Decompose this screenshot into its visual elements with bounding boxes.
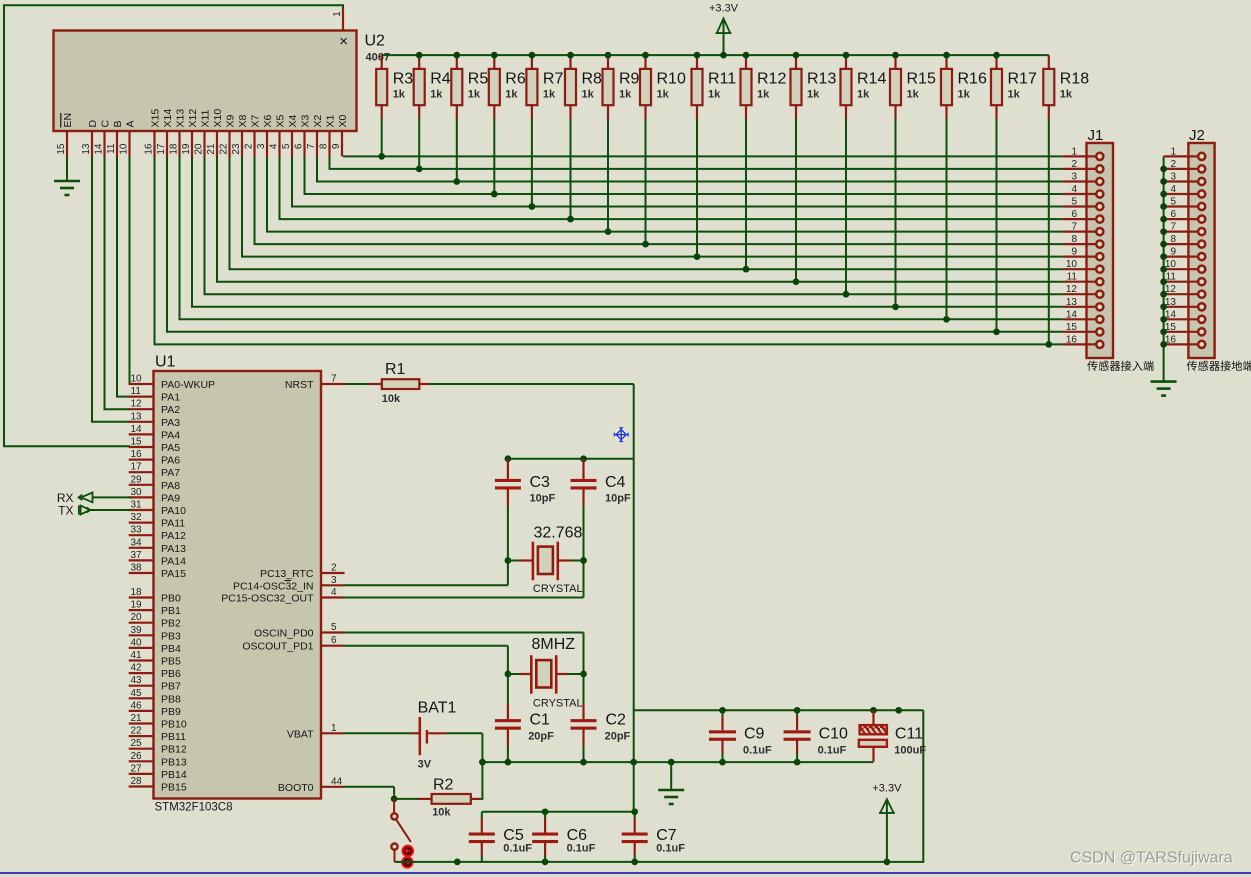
svg-text:R18: R18 xyxy=(1060,71,1089,88)
svg-text:0.1uF: 0.1uF xyxy=(503,843,532,855)
svg-text:R13: R13 xyxy=(807,71,836,88)
svg-text:10k: 10k xyxy=(382,393,401,405)
svg-text:PA7: PA7 xyxy=(161,467,180,479)
svg-text:PA15: PA15 xyxy=(161,568,186,580)
svg-text:1k: 1k xyxy=(757,89,770,101)
svg-text:41: 41 xyxy=(131,650,143,661)
svg-text:1: 1 xyxy=(1071,146,1077,157)
svg-text:29: 29 xyxy=(131,474,143,485)
svg-text:A: A xyxy=(124,120,136,127)
svg-text:PC15-OSC32_OUT: PC15-OSC32_OUT xyxy=(221,593,314,605)
svg-text:C4: C4 xyxy=(605,474,626,491)
svg-text:34: 34 xyxy=(131,537,143,548)
svg-text:1k: 1k xyxy=(582,89,595,101)
svg-text:33: 33 xyxy=(131,525,143,536)
svg-text:PA0-WKUP: PA0-WKUP xyxy=(161,379,215,391)
svg-text:20pF: 20pF xyxy=(528,731,554,743)
svg-text:PB2: PB2 xyxy=(161,618,181,630)
svg-text:100uF: 100uF xyxy=(894,745,926,757)
svg-text:X15: X15 xyxy=(149,109,161,128)
svg-text:10: 10 xyxy=(119,143,130,155)
svg-text:46: 46 xyxy=(131,700,143,711)
svg-text:PC14-OSC32_IN: PC14-OSC32_IN xyxy=(233,580,314,592)
svg-text:20pF: 20pF xyxy=(605,731,631,743)
svg-text:+3.3V: +3.3V xyxy=(872,783,902,795)
svg-text:J1: J1 xyxy=(1088,127,1104,144)
svg-text:PB3: PB3 xyxy=(161,630,181,642)
svg-text:43: 43 xyxy=(131,675,143,686)
svg-text:13: 13 xyxy=(81,143,92,155)
svg-text:BOOT0: BOOT0 xyxy=(278,782,314,794)
svg-text:37: 37 xyxy=(131,550,143,561)
svg-text:PA9: PA9 xyxy=(161,492,180,504)
svg-text:R7: R7 xyxy=(543,71,564,88)
svg-text:X2: X2 xyxy=(312,114,324,127)
svg-text:PB10: PB10 xyxy=(161,719,187,731)
svg-text:R8: R8 xyxy=(582,71,603,88)
svg-text:5: 5 xyxy=(281,143,292,149)
svg-text:X1: X1 xyxy=(324,114,336,127)
svg-text:TX: TX xyxy=(58,504,73,518)
svg-text:30: 30 xyxy=(131,487,143,498)
svg-text:10: 10 xyxy=(1066,259,1078,270)
svg-text:R15: R15 xyxy=(907,71,936,88)
svg-text:11: 11 xyxy=(1067,272,1078,283)
svg-text:9: 9 xyxy=(1071,247,1077,258)
svg-text:PA4: PA4 xyxy=(161,429,180,441)
svg-text:8: 8 xyxy=(319,143,330,149)
svg-text:9: 9 xyxy=(1170,247,1176,258)
svg-text:32.768: 32.768 xyxy=(534,525,583,542)
svg-text:1k: 1k xyxy=(857,89,870,101)
svg-text:21: 21 xyxy=(206,143,217,155)
svg-text:15: 15 xyxy=(1066,322,1078,333)
svg-text:X11: X11 xyxy=(199,109,211,127)
svg-text:CRYSTAL: CRYSTAL xyxy=(533,583,583,595)
svg-text:12: 12 xyxy=(1066,284,1078,295)
svg-text:B: B xyxy=(112,120,124,127)
svg-text:10pF: 10pF xyxy=(530,493,556,505)
svg-text:PA8: PA8 xyxy=(161,480,180,492)
svg-text:16: 16 xyxy=(144,143,155,155)
svg-text:1: 1 xyxy=(1170,146,1176,157)
svg-text:C9: C9 xyxy=(744,726,765,743)
svg-text:40: 40 xyxy=(131,637,143,648)
svg-text:R11: R11 xyxy=(708,71,736,88)
svg-text:7: 7 xyxy=(306,143,317,149)
svg-text:17: 17 xyxy=(156,143,167,155)
svg-text:18: 18 xyxy=(131,587,143,598)
svg-text:X7: X7 xyxy=(249,114,261,127)
svg-text:21: 21 xyxy=(131,713,143,724)
svg-text:20: 20 xyxy=(194,143,205,155)
svg-text:R16: R16 xyxy=(958,71,987,88)
svg-text:×: × xyxy=(339,33,348,50)
svg-text:5: 5 xyxy=(331,622,337,633)
svg-text:14: 14 xyxy=(1066,309,1078,320)
svg-text:3V: 3V xyxy=(418,759,432,771)
svg-text:0.1uF: 0.1uF xyxy=(743,745,772,757)
svg-text:1k: 1k xyxy=(505,89,518,101)
svg-text:5: 5 xyxy=(1071,197,1077,208)
svg-text:X9: X9 xyxy=(224,114,236,127)
svg-text:C: C xyxy=(99,120,111,128)
svg-text:PB4: PB4 xyxy=(161,643,181,655)
svg-text:3: 3 xyxy=(1170,172,1176,183)
svg-text:44: 44 xyxy=(331,776,343,787)
svg-text:7: 7 xyxy=(331,374,337,385)
svg-text:PA5: PA5 xyxy=(161,442,180,454)
svg-text:X12: X12 xyxy=(187,109,199,128)
svg-text:15: 15 xyxy=(131,437,143,448)
svg-text:X6: X6 xyxy=(262,114,274,127)
svg-text:J2: J2 xyxy=(1189,127,1205,144)
svg-text:+3.3V: +3.3V xyxy=(709,3,739,15)
svg-text:4: 4 xyxy=(331,587,337,598)
svg-text:PB14: PB14 xyxy=(161,769,187,781)
svg-text:1k: 1k xyxy=(907,89,920,101)
svg-text:PB0: PB0 xyxy=(161,593,181,605)
svg-text:PB15: PB15 xyxy=(161,782,187,794)
svg-text:17: 17 xyxy=(131,462,143,473)
svg-text:D: D xyxy=(87,120,99,128)
svg-text:OSCIN_PD0: OSCIN_PD0 xyxy=(254,628,314,640)
svg-text:PB9: PB9 xyxy=(161,706,181,718)
svg-text:11: 11 xyxy=(106,143,117,154)
svg-text:BAT1: BAT1 xyxy=(418,700,457,717)
svg-text:X4: X4 xyxy=(287,114,299,127)
svg-text:0.1uF: 0.1uF xyxy=(656,843,685,855)
svg-text:R10: R10 xyxy=(657,71,686,88)
svg-text:8: 8 xyxy=(1071,234,1077,245)
svg-text:1k: 1k xyxy=(1008,89,1021,101)
svg-text:12: 12 xyxy=(131,399,143,410)
svg-text:R3: R3 xyxy=(393,71,414,88)
svg-text:6: 6 xyxy=(1071,209,1077,220)
svg-text:2: 2 xyxy=(244,143,255,149)
svg-text:15: 15 xyxy=(56,143,67,155)
svg-text:1k: 1k xyxy=(393,89,406,101)
svg-text:26: 26 xyxy=(131,751,143,762)
svg-text:1k: 1k xyxy=(708,89,721,101)
svg-text:9: 9 xyxy=(331,143,342,149)
svg-text:16: 16 xyxy=(131,449,143,460)
svg-text:3: 3 xyxy=(331,575,337,586)
svg-text:OSCOUT_PD1: OSCOUT_PD1 xyxy=(242,641,313,653)
svg-text:U2: U2 xyxy=(365,33,386,50)
svg-text:14: 14 xyxy=(94,143,105,155)
svg-text:18: 18 xyxy=(169,143,180,155)
svg-text:X8: X8 xyxy=(237,114,249,127)
svg-text:C5: C5 xyxy=(503,827,524,844)
svg-text:X10: X10 xyxy=(212,109,224,128)
svg-text:R4: R4 xyxy=(430,71,451,88)
svg-text:32: 32 xyxy=(131,512,143,523)
svg-text:7: 7 xyxy=(1071,222,1077,233)
svg-text:3: 3 xyxy=(256,143,267,149)
svg-text:0.1uF: 0.1uF xyxy=(818,745,847,757)
svg-text:42: 42 xyxy=(131,663,143,674)
svg-text:25: 25 xyxy=(131,738,143,749)
svg-text:45: 45 xyxy=(131,688,143,699)
svg-text:1k: 1k xyxy=(657,89,670,101)
svg-text:2: 2 xyxy=(331,563,337,574)
svg-text:13: 13 xyxy=(1066,297,1078,308)
svg-text:PB6: PB6 xyxy=(161,668,181,680)
svg-text:14: 14 xyxy=(131,424,143,435)
svg-text:R9: R9 xyxy=(619,71,640,88)
svg-text:C6: C6 xyxy=(567,827,588,844)
svg-text:11: 11 xyxy=(1166,272,1177,283)
svg-text:10: 10 xyxy=(131,374,143,385)
svg-text:2: 2 xyxy=(1071,159,1077,170)
svg-text:22: 22 xyxy=(131,726,143,737)
svg-text:R1: R1 xyxy=(385,361,406,378)
svg-text:11: 11 xyxy=(131,386,142,397)
svg-text:R14: R14 xyxy=(857,71,886,88)
svg-text:PC13_RTC: PC13_RTC xyxy=(260,568,314,580)
svg-text:PB13: PB13 xyxy=(161,756,187,768)
svg-text:1k: 1k xyxy=(619,89,632,101)
svg-text:X3: X3 xyxy=(299,114,311,127)
svg-text:27: 27 xyxy=(131,763,143,774)
svg-text:23: 23 xyxy=(231,143,242,155)
svg-text:C10: C10 xyxy=(819,726,848,743)
svg-text:VBAT: VBAT xyxy=(287,728,314,740)
svg-text:10pF: 10pF xyxy=(605,493,631,505)
svg-text:6: 6 xyxy=(331,635,337,646)
svg-text:22: 22 xyxy=(219,143,230,155)
svg-text:U1: U1 xyxy=(155,354,176,371)
svg-text:10k: 10k xyxy=(432,807,451,819)
svg-text:38: 38 xyxy=(131,563,143,574)
svg-text:PA13: PA13 xyxy=(161,543,186,555)
svg-text:C2: C2 xyxy=(606,712,627,729)
svg-text:6: 6 xyxy=(1170,209,1176,220)
svg-text:4: 4 xyxy=(1071,184,1077,195)
svg-text:5: 5 xyxy=(1170,197,1176,208)
svg-text:0.1uF: 0.1uF xyxy=(567,843,596,855)
svg-text:PA6: PA6 xyxy=(161,455,180,467)
svg-text:1: 1 xyxy=(331,723,337,734)
svg-text:7: 7 xyxy=(1170,222,1176,233)
svg-text:X13: X13 xyxy=(174,109,186,128)
svg-text:8: 8 xyxy=(1170,234,1176,245)
svg-text:PA11: PA11 xyxy=(161,518,185,530)
svg-text:16: 16 xyxy=(1066,334,1078,345)
svg-text:X5: X5 xyxy=(274,114,286,127)
svg-text:PA14: PA14 xyxy=(161,555,186,567)
svg-text:R12: R12 xyxy=(757,71,786,88)
svg-text:PB1: PB1 xyxy=(161,605,181,617)
svg-text:1k: 1k xyxy=(1060,89,1073,101)
svg-text:1k: 1k xyxy=(807,89,820,101)
svg-text:X14: X14 xyxy=(162,109,174,128)
svg-text:PB12: PB12 xyxy=(161,744,187,756)
svg-text:PA12: PA12 xyxy=(161,530,186,542)
svg-text:PA3: PA3 xyxy=(161,417,180,429)
svg-text:PA1: PA1 xyxy=(161,392,180,404)
svg-text:20: 20 xyxy=(131,612,143,623)
svg-text:STM32F103C8: STM32F103C8 xyxy=(155,802,233,814)
svg-text:C3: C3 xyxy=(530,474,551,491)
svg-text:PA2: PA2 xyxy=(161,404,180,416)
svg-text:19: 19 xyxy=(181,143,192,155)
svg-text:PB5: PB5 xyxy=(161,656,181,668)
svg-text:13: 13 xyxy=(131,411,143,422)
svg-text:3: 3 xyxy=(1071,172,1077,183)
svg-text:1k: 1k xyxy=(543,89,556,101)
svg-text:R6: R6 xyxy=(505,71,526,88)
svg-text:4: 4 xyxy=(1170,184,1176,195)
svg-text:28: 28 xyxy=(131,776,143,787)
svg-text:6: 6 xyxy=(294,143,305,149)
svg-text:CRYSTAL: CRYSTAL xyxy=(533,698,583,710)
svg-text:PB11: PB11 xyxy=(161,731,186,743)
svg-text:C11: C11 xyxy=(895,726,923,743)
svg-text:2: 2 xyxy=(1170,159,1176,170)
svg-text:1k: 1k xyxy=(430,89,443,101)
svg-text:4: 4 xyxy=(269,143,280,149)
svg-text:X0: X0 xyxy=(337,114,349,127)
svg-text:EN: EN xyxy=(62,113,74,128)
svg-text:NRST: NRST xyxy=(285,379,314,391)
svg-text:C7: C7 xyxy=(656,827,677,844)
svg-text:PB8: PB8 xyxy=(161,693,181,705)
svg-text:R17: R17 xyxy=(1008,71,1037,88)
svg-text:4067: 4067 xyxy=(366,52,390,64)
svg-text:C1: C1 xyxy=(530,712,551,729)
svg-text:1k: 1k xyxy=(958,89,971,101)
svg-text:PA10: PA10 xyxy=(161,505,186,517)
svg-text:R5: R5 xyxy=(468,71,489,88)
svg-text:PB7: PB7 xyxy=(161,681,181,693)
svg-text:1k: 1k xyxy=(468,89,481,101)
svg-text:31: 31 xyxy=(131,500,143,511)
svg-text:CSDN @TARSfujiwara: CSDN @TARSfujiwara xyxy=(1070,850,1233,867)
svg-text:19: 19 xyxy=(131,600,143,611)
svg-text:1: 1 xyxy=(332,11,343,17)
svg-text:39: 39 xyxy=(131,625,143,636)
svg-text:R2: R2 xyxy=(433,777,454,794)
svg-text:8MHZ: 8MHZ xyxy=(532,636,576,653)
